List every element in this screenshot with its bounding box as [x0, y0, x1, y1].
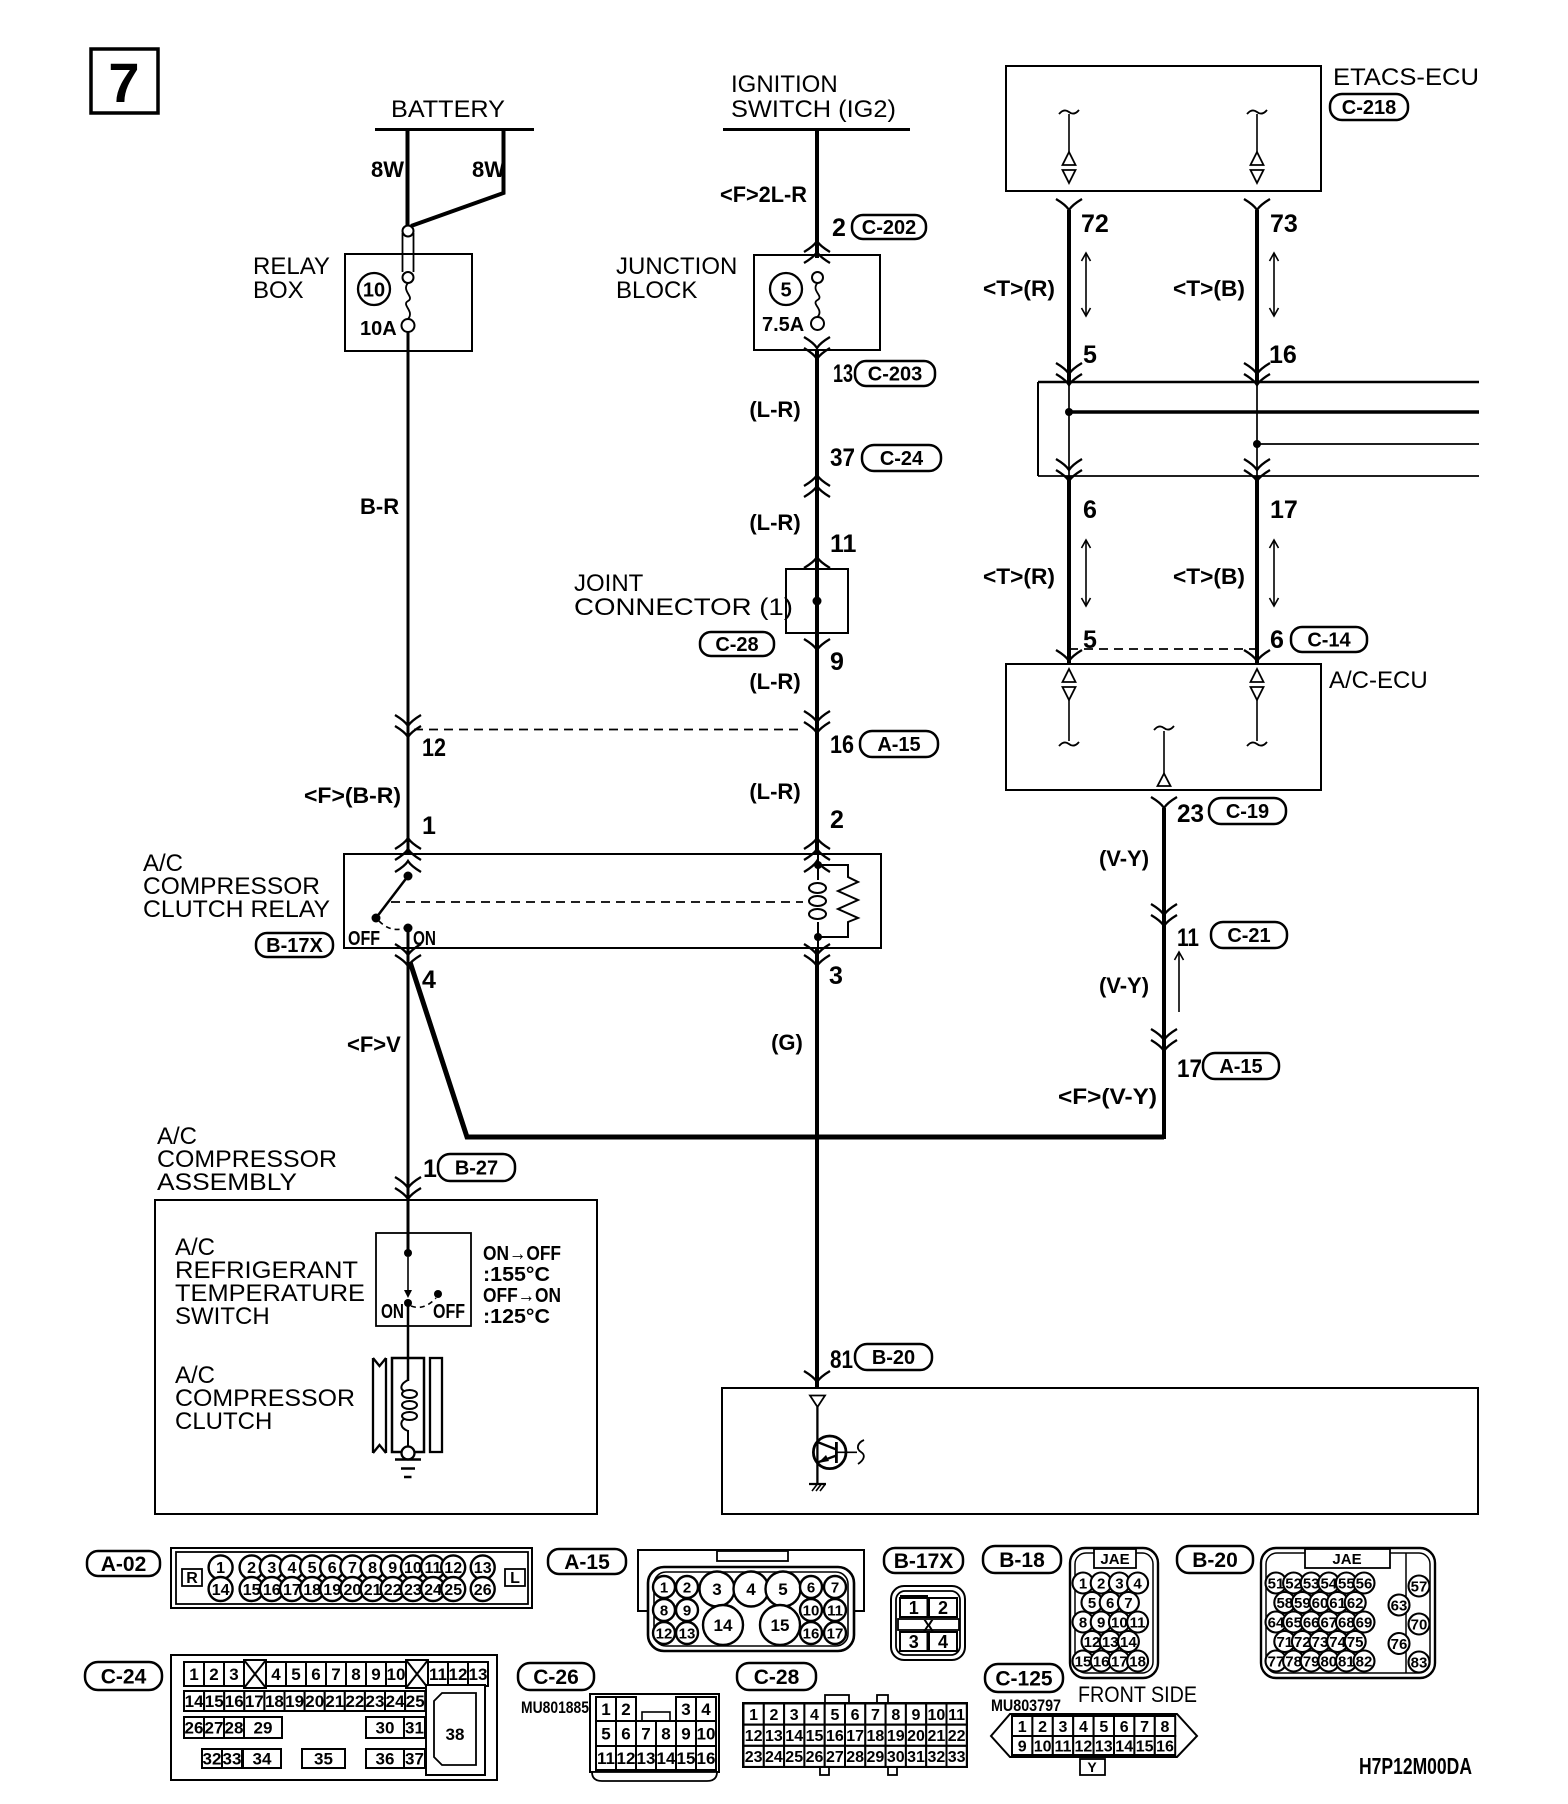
svg-text:33: 33 [948, 1749, 966, 1766]
svg-text:6: 6 [1083, 496, 1097, 524]
fuse number 5, 7.5A [762, 273, 804, 336]
junction block [616, 253, 880, 350]
connector A-15 [638, 1550, 864, 1651]
svg-text:MU803797: MU803797 [991, 1696, 1061, 1715]
svg-text:2: 2 [832, 214, 846, 242]
wire ETACS 72 to 5 T(R) [983, 199, 1109, 382]
svg-text:(L-R): (L-R) [749, 779, 800, 804]
svg-text:25: 25 [444, 1582, 462, 1599]
wire 6 to 5 T(R) [983, 459, 1097, 664]
svg-text:78: 78 [1285, 1653, 1302, 1670]
svg-text:2: 2 [1097, 1575, 1105, 1592]
page number box 7 [91, 49, 158, 114]
svg-text:77: 77 [1268, 1653, 1285, 1670]
svg-text:33: 33 [223, 1750, 242, 1769]
svg-text:C-14: C-14 [1307, 630, 1351, 652]
svg-text:2: 2 [683, 1579, 691, 1596]
svg-text:16: 16 [826, 1728, 844, 1745]
svg-text:24: 24 [424, 1582, 442, 1599]
svg-text:MU801885: MU801885 [521, 1698, 589, 1717]
clutch pulley belt symbol [373, 1358, 386, 1453]
svg-text:C-19: C-19 [1226, 801, 1269, 823]
svg-text:(V-Y): (V-Y) [1099, 846, 1149, 871]
relay coil [809, 855, 826, 948]
svg-text:11: 11 [948, 1707, 965, 1724]
wire 17 to 6 T(B) C-14 [1173, 459, 1367, 664]
svg-text:15: 15 [771, 1616, 790, 1635]
A/C compressor clutch relay B-17X [143, 850, 881, 957]
temp switch contacts [381, 1249, 465, 1323]
svg-text:12: 12 [617, 1749, 636, 1768]
svg-text:73: 73 [1270, 210, 1298, 238]
crossing junction box to other systems [1038, 363, 1479, 476]
svg-text:7: 7 [641, 1725, 650, 1744]
svg-text:B-18: B-18 [999, 1549, 1045, 1572]
svg-text:17: 17 [1177, 1055, 1202, 1083]
svg-text:5: 5 [830, 1707, 839, 1724]
svg-text:ETACS-ECU: ETACS-ECU [1333, 64, 1479, 91]
svg-text:34: 34 [253, 1750, 272, 1769]
svg-text:11: 11 [1130, 1614, 1146, 1631]
battery [375, 96, 534, 130]
connector label B-20 [1177, 1546, 1253, 1573]
svg-text:ON→OFF: ON→OFF [483, 1243, 561, 1265]
svg-text:<F>V: <F>V [347, 1032, 401, 1057]
svg-text:3: 3 [829, 962, 843, 990]
svg-text:76: 76 [1391, 1636, 1408, 1653]
svg-text:2: 2 [769, 1707, 778, 1724]
svg-text:<F>(V-Y): <F>(V-Y) [1058, 1084, 1157, 1109]
connector label A-02 [87, 1551, 160, 1576]
connector B-17X [891, 1586, 965, 1660]
connector B-18 [1070, 1548, 1158, 1678]
input triangle [810, 1396, 825, 1408]
svg-text:20: 20 [344, 1582, 362, 1599]
wire B-R from relay box to A/C compressor clutch relay [360, 332, 408, 855]
svg-text:10: 10 [1034, 1738, 1052, 1755]
svg-text:C-24: C-24 [880, 448, 924, 470]
svg-text:SWITCH: SWITCH [175, 1303, 270, 1330]
relay pin 4 [395, 944, 436, 994]
svg-text:<F>(B-R): <F>(B-R) [304, 783, 401, 808]
svg-text:C-125: C-125 [995, 1667, 1053, 1690]
svg-text:C-218: C-218 [1342, 97, 1396, 119]
svg-text:4: 4 [271, 1665, 281, 1684]
svg-text:15: 15 [1136, 1738, 1154, 1755]
svg-text:1: 1 [216, 1560, 225, 1577]
svg-text:7: 7 [831, 1579, 839, 1596]
svg-text:70: 70 [1411, 1616, 1428, 1633]
clutch right plate [430, 1358, 442, 1452]
svg-text:16: 16 [803, 1625, 820, 1642]
svg-text:16: 16 [1269, 341, 1297, 369]
connector C-125 [991, 1714, 1197, 1775]
svg-text:A-15: A-15 [564, 1551, 610, 1574]
svg-text:8: 8 [368, 1560, 377, 1577]
svg-text:7: 7 [1124, 1595, 1132, 1612]
svg-text:5: 5 [291, 1665, 300, 1684]
svg-text:19: 19 [285, 1692, 304, 1711]
svg-text:23: 23 [1177, 800, 1204, 828]
svg-text:7: 7 [348, 1560, 357, 1577]
svg-text:16: 16 [225, 1692, 244, 1711]
svg-text:4: 4 [287, 1560, 296, 1577]
svg-text:6: 6 [311, 1665, 320, 1684]
wire V-Y pin 23 C-19 [1151, 797, 1286, 1139]
svg-text:26: 26 [474, 1582, 492, 1599]
svg-text:1: 1 [189, 1665, 198, 1684]
svg-text:61: 61 [1329, 1595, 1346, 1612]
wire label L-R 3 [749, 669, 800, 694]
svg-text:60: 60 [1312, 1595, 1329, 1612]
svg-text:11: 11 [827, 1602, 843, 1619]
svg-text:L: L [510, 1570, 520, 1587]
svg-text:(G): (G) [771, 1030, 803, 1055]
svg-text:32: 32 [203, 1750, 222, 1769]
svg-text:(L-R): (L-R) [749, 669, 800, 694]
temp switch thresholds [483, 1243, 561, 1328]
svg-text:38: 38 [446, 1725, 465, 1744]
svg-text:12: 12 [422, 734, 446, 762]
svg-text:13: 13 [1102, 1634, 1119, 1651]
connector label C-26 [518, 1663, 594, 1717]
svg-text:JUNCTION: JUNCTION [616, 253, 737, 280]
svg-text:10: 10 [404, 1560, 422, 1577]
svg-text:12: 12 [745, 1728, 763, 1745]
pin 2 C-202 [804, 214, 926, 263]
svg-text:JOINT: JOINT [574, 570, 644, 597]
svg-text:9: 9 [830, 648, 844, 676]
svg-text:(L-R): (L-R) [749, 510, 800, 535]
svg-text:12: 12 [444, 1560, 462, 1577]
svg-text:72: 72 [1294, 1634, 1311, 1651]
connector B-20 [1261, 1548, 1435, 1678]
relay switch contacts [348, 872, 436, 951]
svg-text:C-203: C-203 [868, 364, 922, 386]
svg-text:3: 3 [681, 1700, 690, 1719]
svg-text:16: 16 [1093, 1653, 1110, 1670]
connector C-28 [743, 1695, 967, 1775]
svg-text:H7P12M00DA: H7P12M00DA [1359, 1753, 1472, 1779]
svg-text:9: 9 [1097, 1614, 1105, 1631]
svg-text:1: 1 [601, 1700, 610, 1719]
svg-text:<T>(R): <T>(R) [983, 276, 1055, 301]
svg-text:8: 8 [1161, 1719, 1170, 1736]
clutch coil body [392, 1358, 424, 1460]
svg-text:15: 15 [806, 1728, 824, 1745]
svg-text:RELAY: RELAY [253, 253, 330, 280]
svg-text:11: 11 [1177, 924, 1199, 952]
svg-text:14: 14 [657, 1749, 676, 1768]
joint connector (1) C-28 [574, 569, 848, 656]
svg-text:31: 31 [405, 1719, 424, 1738]
svg-text:ASSEMBLY: ASSEMBLY [157, 1169, 297, 1196]
svg-text:13: 13 [833, 360, 853, 388]
svg-text:10: 10 [363, 280, 385, 302]
svg-text:27: 27 [205, 1719, 224, 1738]
connector label C-24 [85, 1662, 162, 1690]
svg-text:16: 16 [697, 1749, 716, 1768]
svg-text:5: 5 [780, 280, 791, 302]
svg-text:B-17X: B-17X [894, 1550, 954, 1573]
svg-text:9: 9 [388, 1560, 397, 1577]
svg-text:A-15: A-15 [1219, 1056, 1262, 1078]
svg-text:69: 69 [1356, 1614, 1373, 1631]
connector label C-125 [985, 1664, 1197, 1715]
svg-text:57: 57 [1411, 1578, 1428, 1595]
svg-text:A-02: A-02 [101, 1553, 147, 1576]
svg-text:B-R: B-R [360, 494, 399, 519]
svg-text:10: 10 [697, 1725, 716, 1744]
svg-text:BATTERY: BATTERY [391, 96, 505, 123]
svg-text:11: 11 [830, 530, 857, 558]
pin 81 B-20 [804, 1344, 932, 1382]
svg-text:2: 2 [830, 806, 844, 834]
svg-text:A/C-ECU: A/C-ECU [1329, 667, 1428, 694]
svg-text:17: 17 [245, 1692, 264, 1711]
svg-text:30: 30 [376, 1719, 395, 1738]
A/C-ECU pin symbol center [1154, 726, 1174, 786]
svg-text:26: 26 [806, 1749, 824, 1766]
svg-text:11: 11 [1055, 1738, 1072, 1755]
svg-text:2: 2 [938, 1598, 948, 1618]
svg-text:21: 21 [364, 1582, 382, 1599]
svg-text:<T>(B): <T>(B) [1173, 276, 1245, 301]
relay box [253, 253, 472, 351]
pin 11 C-21 [1151, 904, 1287, 952]
svg-text::155°C: :155°C [483, 1264, 550, 1286]
dashed link relay pin12 to A-15 pin16 [414, 729, 803, 731]
svg-text:17: 17 [283, 1582, 301, 1599]
svg-text:IGNITION: IGNITION [731, 71, 838, 98]
svg-text:13: 13 [474, 1560, 492, 1577]
fuse symbol junction block [811, 272, 824, 330]
svg-text:5: 5 [1083, 341, 1097, 369]
wire ETACS 73 to 16 T(B) [1173, 199, 1298, 382]
svg-text:19: 19 [323, 1582, 341, 1599]
svg-text:16: 16 [1156, 1738, 1174, 1755]
A/C-ECU pin symbol right [1247, 669, 1267, 746]
svg-text:13: 13 [679, 1625, 696, 1642]
svg-text:JAE: JAE [1100, 1551, 1129, 1568]
connector label B-18 [983, 1546, 1061, 1573]
svg-text:56: 56 [1356, 1575, 1373, 1592]
svg-text:4: 4 [701, 1700, 711, 1719]
svg-text:SWITCH (IG2): SWITCH (IG2) [731, 96, 896, 123]
svg-text:31: 31 [907, 1749, 925, 1766]
svg-text:8: 8 [351, 1665, 360, 1684]
relay pin 2 [804, 806, 844, 872]
wire label F B-R [304, 783, 401, 808]
svg-text:<F>2L-R: <F>2L-R [720, 182, 807, 207]
wire F V to compressor [347, 948, 408, 1255]
svg-text:CLUTCH: CLUTCH [175, 1408, 272, 1435]
svg-text:10: 10 [1111, 1614, 1128, 1631]
svg-text:15: 15 [243, 1582, 261, 1599]
svg-text:22: 22 [948, 1728, 966, 1745]
svg-text:52: 52 [1285, 1575, 1302, 1592]
svg-text:B-17X: B-17X [266, 935, 323, 957]
svg-text:8: 8 [1079, 1614, 1087, 1631]
svg-text:3: 3 [712, 1580, 721, 1599]
svg-text:6: 6 [621, 1725, 630, 1744]
svg-text:28: 28 [846, 1749, 864, 1766]
svg-text:4: 4 [1133, 1575, 1142, 1592]
svg-text:CLUTCH RELAY: CLUTCH RELAY [143, 896, 330, 923]
svg-text:C-24: C-24 [101, 1665, 147, 1688]
svg-text:1: 1 [909, 1598, 919, 1618]
svg-text:22: 22 [384, 1582, 402, 1599]
svg-text:11: 11 [429, 1665, 447, 1684]
svg-text:Y: Y [1087, 1759, 1097, 1775]
svg-text:24: 24 [386, 1692, 405, 1711]
svg-text:29: 29 [867, 1749, 885, 1766]
relay pin 1 [395, 812, 436, 872]
transistor ground [809, 1484, 826, 1491]
svg-text:28: 28 [225, 1719, 244, 1738]
svg-text:7: 7 [331, 1665, 340, 1684]
connector label A-15 [548, 1549, 626, 1574]
svg-text:CONNECTOR (1): CONNECTOR (1) [574, 594, 793, 621]
connector C-24 [171, 1655, 497, 1780]
svg-text:35: 35 [314, 1750, 333, 1769]
svg-text:3: 3 [909, 1632, 919, 1652]
svg-text:16: 16 [263, 1582, 281, 1599]
svg-text:32: 32 [928, 1749, 946, 1766]
svg-text:A-15: A-15 [877, 734, 920, 756]
svg-text:66: 66 [1303, 1614, 1320, 1631]
svg-text:12: 12 [449, 1665, 468, 1684]
svg-text:15: 15 [677, 1749, 696, 1768]
pin 13 C-203 [804, 337, 935, 388]
ETACS pin symbol left [1059, 110, 1079, 183]
thick wire relay pin4 to A/C-ECU (V-Y) [410, 962, 1164, 1137]
svg-text:(L-R): (L-R) [749, 397, 800, 422]
svg-text:65: 65 [1285, 1614, 1302, 1631]
connector mark 12 B-17X [395, 715, 446, 762]
connector C-26 [590, 1694, 719, 1781]
svg-text:15: 15 [1075, 1653, 1092, 1670]
svg-text:1: 1 [1018, 1719, 1027, 1736]
svg-text:15: 15 [205, 1692, 224, 1711]
svg-text:4: 4 [1079, 1719, 1088, 1736]
svg-text:3: 3 [1115, 1575, 1123, 1592]
pin 1 B-27 [395, 1154, 515, 1199]
svg-text:10A: 10A [360, 318, 397, 340]
svg-text:8W: 8W [371, 157, 404, 182]
svg-text:73: 73 [1312, 1634, 1329, 1651]
A/C-ECU pin symbol left [1059, 669, 1079, 746]
connector label C-28 [737, 1663, 816, 1690]
wire ignition to junction block [720, 128, 817, 258]
svg-text:14: 14 [714, 1616, 733, 1635]
svg-text:B-20: B-20 [1192, 1549, 1238, 1572]
svg-text:26: 26 [185, 1719, 204, 1738]
svg-text:8: 8 [660, 1602, 668, 1619]
svg-text:R: R [186, 1570, 198, 1587]
svg-text:83: 83 [1411, 1654, 1428, 1671]
svg-text:20: 20 [305, 1692, 324, 1711]
svg-text:25: 25 [785, 1749, 803, 1766]
svg-text:7: 7 [108, 51, 139, 114]
wire L-R to C-24 [749, 350, 817, 855]
up arrow [1175, 952, 1184, 1012]
svg-text:79: 79 [1303, 1653, 1320, 1670]
wire battery left 8W [371, 128, 408, 226]
svg-text:23: 23 [745, 1749, 763, 1766]
svg-text:21: 21 [928, 1728, 946, 1745]
svg-text:22: 22 [345, 1692, 364, 1711]
wire label L-R 2 [749, 510, 800, 535]
svg-text:27: 27 [826, 1749, 844, 1766]
svg-text:<T>(R): <T>(R) [983, 564, 1055, 589]
svg-text:7: 7 [871, 1707, 880, 1724]
pin 16 A-15 [804, 711, 938, 759]
relay resistor [818, 865, 858, 937]
wire battery right 8W [411, 128, 505, 226]
svg-text:4: 4 [810, 1707, 819, 1724]
svg-text:17: 17 [1111, 1653, 1128, 1670]
svg-text:81: 81 [830, 1346, 853, 1374]
svg-text:80: 80 [1320, 1653, 1337, 1670]
ETACS pin symbol right [1247, 110, 1267, 183]
relay pin 3 [804, 944, 843, 990]
svg-text:9: 9 [371, 1665, 380, 1684]
svg-text:23: 23 [404, 1582, 422, 1599]
svg-text::125°C: :125°C [483, 1306, 550, 1328]
svg-text:6: 6 [807, 1579, 815, 1596]
svg-text:C-26: C-26 [533, 1666, 579, 1689]
svg-text:72: 72 [1081, 210, 1109, 238]
svg-text:63: 63 [1391, 1597, 1408, 1614]
svg-text:82: 82 [1356, 1653, 1373, 1670]
pin 37 C-24 [804, 444, 941, 497]
svg-text:1: 1 [423, 1155, 437, 1183]
svg-text:9: 9 [912, 1707, 921, 1724]
svg-text:16: 16 [830, 731, 854, 759]
svg-text:23: 23 [366, 1692, 385, 1711]
svg-text:10: 10 [928, 1707, 946, 1724]
wire G from relay pin3 to B-20 [771, 948, 817, 1388]
svg-text:68: 68 [1338, 1614, 1355, 1631]
wire temp switch to clutch [407, 1303, 410, 1381]
svg-text:1: 1 [422, 812, 436, 840]
svg-text:12: 12 [656, 1625, 673, 1642]
svg-text:11: 11 [597, 1749, 615, 1768]
svg-text:4: 4 [746, 1580, 756, 1599]
svg-text:3: 3 [790, 1707, 799, 1724]
svg-text:75: 75 [1347, 1634, 1364, 1651]
svg-text:29: 29 [254, 1719, 273, 1738]
svg-text:55: 55 [1338, 1575, 1355, 1592]
svg-text:21: 21 [325, 1692, 344, 1711]
svg-text:6: 6 [1106, 1595, 1114, 1612]
svg-text:17: 17 [1270, 496, 1298, 524]
svg-text:36: 36 [376, 1750, 395, 1769]
svg-text:10: 10 [803, 1602, 820, 1619]
svg-text:9: 9 [683, 1602, 691, 1619]
svg-text:JAE: JAE [1332, 1551, 1361, 1568]
A/C compressor clutch [175, 1362, 355, 1435]
svg-text:6: 6 [851, 1707, 860, 1724]
svg-text:53: 53 [1303, 1575, 1320, 1592]
svg-text:3: 3 [1059, 1719, 1068, 1736]
svg-text:17: 17 [827, 1625, 844, 1642]
svg-text:2: 2 [247, 1560, 256, 1577]
svg-text:14: 14 [785, 1728, 803, 1745]
svg-text:OFF→ON: OFF→ON [483, 1285, 561, 1307]
svg-text:37: 37 [405, 1750, 424, 1769]
